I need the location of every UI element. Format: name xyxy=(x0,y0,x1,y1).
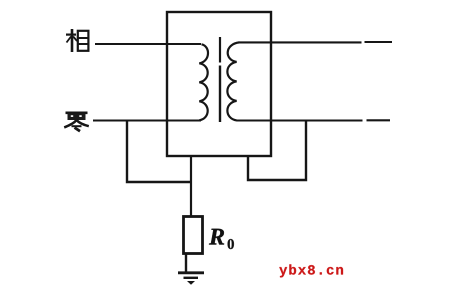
wire: grounding lead from shield box down to resistor xyxy=(190,156,192,216)
wire: secondary top output line xyxy=(239,41,362,43)
transformer T1 primary winding (left coil) xyxy=(199,44,208,120)
ground (earth) symbol xyxy=(178,271,204,274)
transformer T1 secondary winding (right coil) xyxy=(227,42,239,120)
transformer T1 shield enclosure box xyxy=(167,12,271,156)
wire: secondary bottom output line xyxy=(237,119,363,121)
watermark ybx8.cn xyxy=(279,264,343,277)
wire: phase line from 相 to primary winding xyxy=(95,43,201,45)
resistor R0 xyxy=(184,217,203,254)
wire: resistor to earth xyxy=(185,254,187,273)
label 相 (phase) xyxy=(66,29,88,52)
label 零 (neutral) xyxy=(64,113,89,131)
wire: right bonding strap from neutral to shield box xyxy=(248,121,306,181)
transformer T1 core xyxy=(219,37,221,63)
value label R0 (resistor designator) xyxy=(209,229,224,245)
wire: left bonding strap from neutral to grounding lead xyxy=(127,121,191,183)
wire: neutral line from 零 through box to primary winding bottom xyxy=(93,119,201,121)
